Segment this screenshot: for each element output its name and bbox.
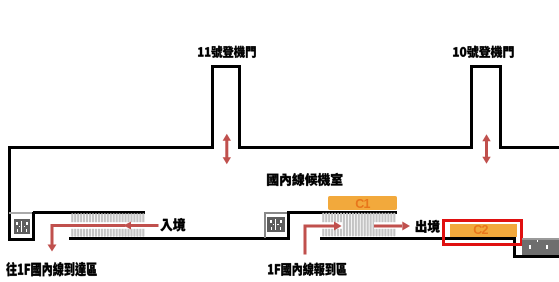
gate 11 jet-bridge outline [211,65,214,149]
escalator left: tread hatching [71,213,144,237]
wall: top-right segment [499,146,559,149]
white casing under red arrows crossing escalators [71,222,397,229]
highlight red box around C2 [442,219,523,246]
gate 10 jet-bridge outline [470,65,473,149]
elevator niche left: gray top lintel [9,212,32,214]
elevator niche middle: gray left jamb [264,212,266,238]
label 1F-checkin text "1F國內線報到區" [268,263,346,276]
toilets box bottom-right: gray top strip [522,238,559,240]
wall: left corridor top [33,211,145,214]
wall: bottom corridor right segment [320,237,516,240]
label gate 11 text "11號登機門" [198,46,256,58]
wall: top-middle segment [238,146,473,149]
wall: bottom corridor left segment [69,237,290,240]
elevator niche left: sill [8,238,35,241]
label gate 10 text "10號登機門" [453,46,513,58]
toilets box bottom-right [522,240,559,255]
label departure text "出境" [416,220,440,233]
arrival path arrow (入境 to left) [48,222,159,252]
C2 shop box [450,224,517,237]
C1 shop box [328,196,397,210]
elevator niche middle: gray top lintel [264,212,287,214]
elevator icon middle [267,217,285,232]
label arrival text "入境" [160,218,185,231]
wall: top-left segment [8,146,214,149]
elevator niche middle: right jamb black [287,211,290,240]
label waiting room text "國內線候機室" [267,173,342,186]
gate 11 boarding double-arrow [223,134,231,164]
departure path arrow (up from 1F, to right) [304,222,342,255]
elevator niche left: right jamb [32,212,35,241]
departure arrow to 出境 [374,222,410,231]
elevator icon left [14,219,30,234]
wall: step-down vertical right [513,239,516,258]
wall: bottom-right segment [513,255,559,258]
wall: left outer [8,146,11,241]
gate 10 boarding double-arrow [482,134,490,163]
label to-1F-arrivals text "往1F國內線到達區" [6,262,97,276]
wall: middle corridor top [287,211,398,214]
escalator middle: tread hatching [322,213,395,237]
